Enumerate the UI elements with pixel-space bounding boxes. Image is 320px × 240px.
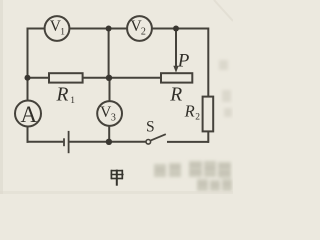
rheostat R body — [161, 73, 192, 82]
voltmeter V3 — [97, 101, 122, 126]
wire: left side upper (frame) — [27, 28, 29, 101]
resistor R1 body — [49, 73, 83, 82]
svg-text:R: R — [169, 85, 182, 106]
svg-text:A: A — [21, 102, 38, 127]
wire: V3 to bottom — [108, 126, 110, 142]
faint ghost mark right edge — [219, 60, 232, 117]
voltmeter V1 — [45, 16, 70, 41]
svg-text:R: R — [56, 84, 69, 105]
svg-text:S: S — [146, 119, 155, 136]
paper background — [0, 0, 233, 194]
wire: left side lower — [27, 127, 29, 143]
voltmeter V2 — [127, 16, 152, 41]
svg-text:P: P — [177, 51, 190, 72]
svg-text:2: 2 — [141, 27, 146, 38]
faint scan shading — [0, 0, 3, 194]
wiper arrowhead — [173, 66, 178, 73]
node dot: top middle — [106, 26, 112, 32]
wire: middle node to rheostat R — [109, 77, 161, 79]
switch lever — [151, 134, 166, 140]
node dot: middle R1 row — [106, 75, 112, 81]
svg-text:3: 3 — [111, 113, 116, 124]
svg-text:1: 1 — [70, 96, 75, 106]
node dot: top wiper branch — [173, 26, 179, 32]
wire: middle vertical upper — [108, 29, 110, 78]
node dot: left R1 row — [25, 75, 31, 81]
resistor R2 body — [203, 97, 214, 132]
svg-text:R: R — [184, 101, 195, 120]
battery cell — [63, 138, 65, 146]
wire: bottom left to battery — [27, 141, 64, 143]
wire: switch right to bottom-right corner — [167, 141, 209, 143]
svg-text:1: 1 — [60, 27, 65, 37]
wire: middle vertical to V3 — [109, 78, 111, 101]
wire: R1 row from left frame — [28, 77, 50, 79]
wire: top between V1 and V2 — [70, 28, 127, 30]
ammeter A — [15, 101, 41, 127]
svg-text:2: 2 — [195, 113, 200, 123]
wire: top side left segment — [28, 28, 45, 30]
wire: wiper branch vertical — [175, 29, 177, 67]
wire: R1 to middle node — [83, 77, 109, 79]
wire: top right segment — [152, 28, 208, 30]
wire: R2 to bottom wire — [207, 131, 209, 142]
wire: battery to switch — [70, 141, 147, 143]
wire: right side top (frame) — [207, 28, 209, 97]
switch S pivot — [146, 140, 151, 145]
node dot: bottom middle — [106, 139, 112, 145]
caption 甲 (drawn strokes) — [111, 170, 124, 186]
faint ghost print bottom right — [154, 161, 232, 191]
